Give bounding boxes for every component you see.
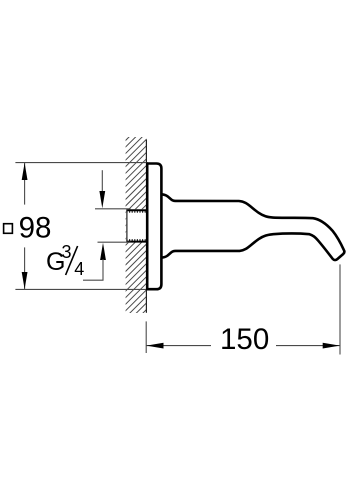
dim line 98 top segment (24, 163, 26, 205)
square symbol (4, 224, 13, 234)
spout body (161, 194, 345, 260)
svg-text:3: 3 (62, 242, 72, 262)
G34 lower leader (83, 259, 103, 280)
wall hatch (0, 137, 320, 314)
fraction slash (66, 246, 78, 275)
150 left ext line (145, 321, 147, 353)
wall face line below flange (145, 290, 147, 313)
G34 upper arrowhead down (99, 191, 105, 208)
G34 upper arrow shaft (101, 170, 103, 192)
dim line 98 bottom segment (24, 247, 26, 289)
G34 lower arrowhead up (100, 243, 106, 260)
thread pipe bottom serration (126, 239, 146, 241)
150 dim line left (146, 345, 211, 347)
thread pipe top edge (126, 209, 146, 211)
svg-text:150: 150 (220, 323, 269, 356)
150 right ext line (339, 264, 341, 354)
G34 ext line top (95, 208, 131, 210)
dim arrow 98 down (22, 272, 28, 289)
G34 ext line bottom (98, 241, 131, 243)
svg-text:98: 98 (19, 212, 52, 245)
svg-text:4: 4 (74, 259, 84, 279)
150 right arrow (323, 343, 340, 349)
dim arrow 98 up (22, 163, 28, 180)
thread pipe white mask (126, 209, 146, 242)
150 left arrow (146, 343, 163, 349)
flange (147, 164, 161, 290)
thread pipe left edge (126, 209, 128, 242)
wall face line above flange (145, 140, 147, 164)
dimension ext line top (98) (15, 162, 147, 164)
thread pipe top serration (126, 211, 146, 213)
dimension ext line bottom (98) (15, 288, 146, 290)
150 dim line right (276, 345, 340, 347)
thread pipe bottom edge (126, 241, 146, 243)
